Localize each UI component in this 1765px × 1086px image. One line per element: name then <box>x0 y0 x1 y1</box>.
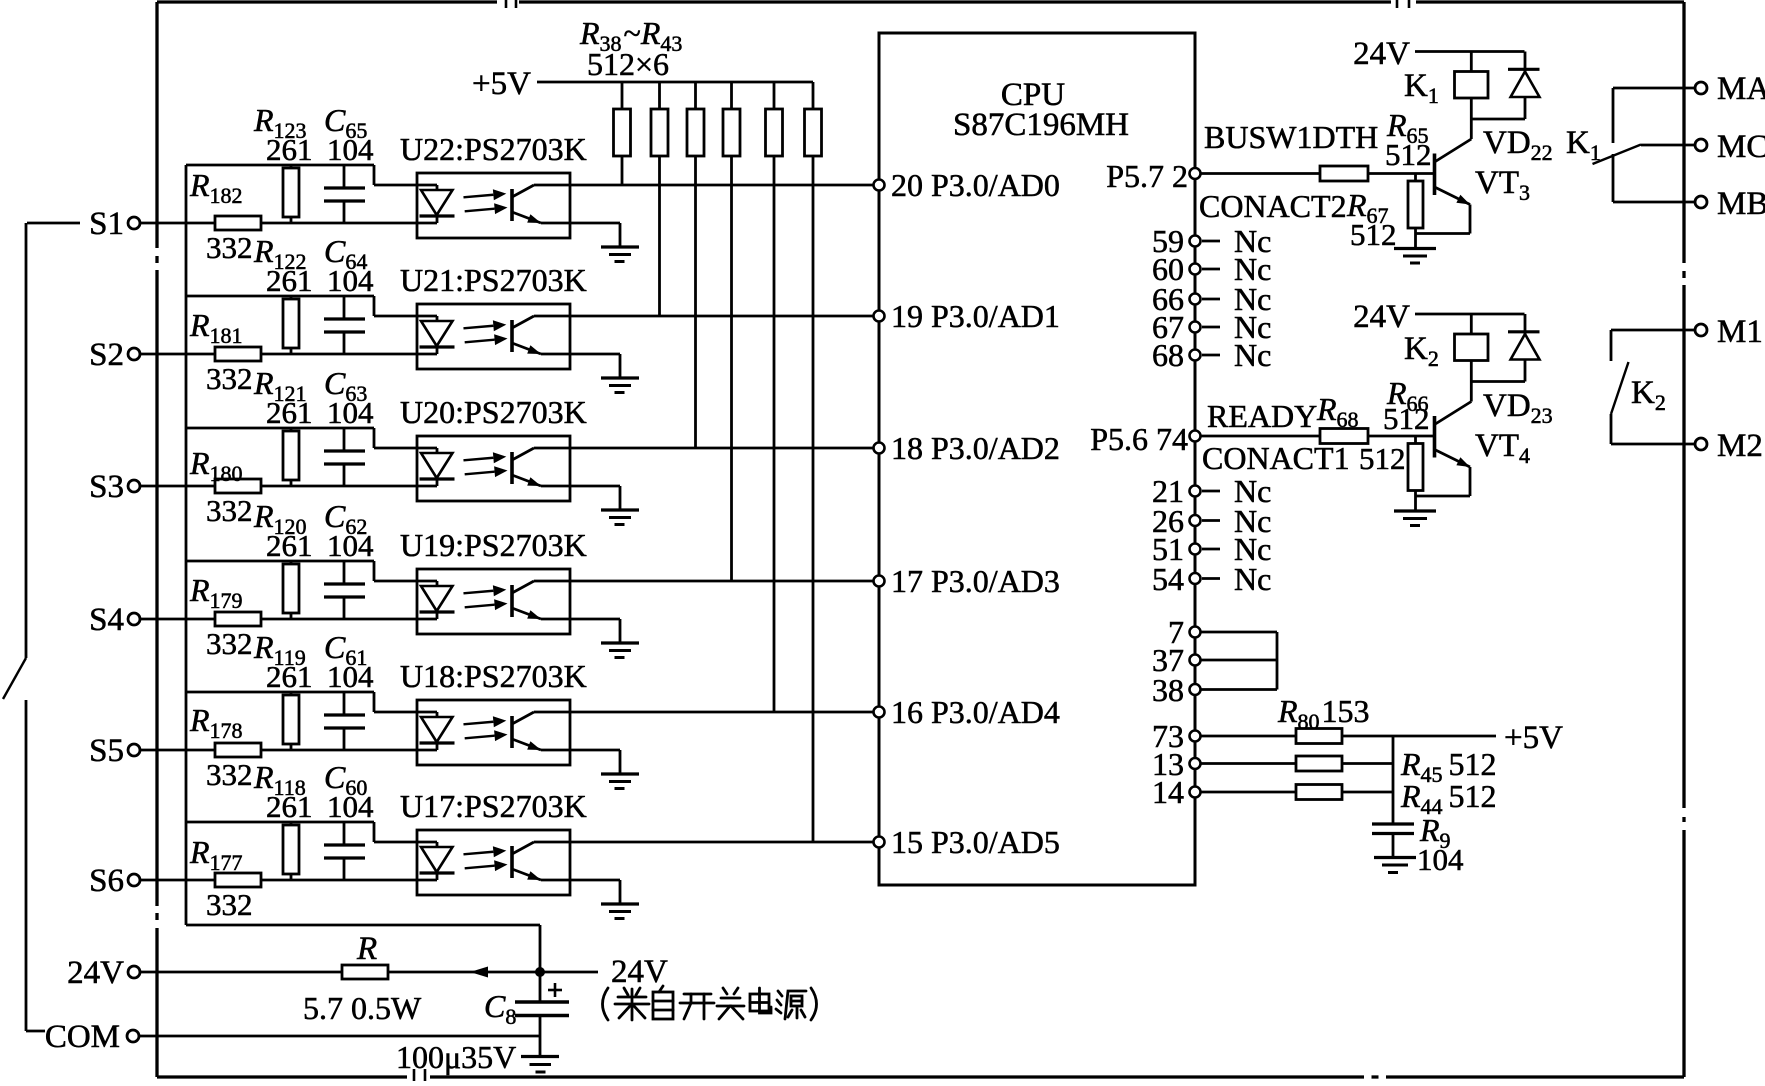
wire 24V rail <box>1415 313 1525 316</box>
svg-text:261: 261 <box>266 789 313 824</box>
diode VD22 <box>1524 52 1527 72</box>
terminal MA <box>1695 82 1707 94</box>
U19 phototransistor <box>510 585 514 617</box>
ground below VT4 <box>1394 509 1436 512</box>
svg-text:R80153: R80153 <box>1277 693 1370 734</box>
wire U18 emitter to ground <box>541 749 620 752</box>
svg-text:MC: MC <box>1717 129 1765 165</box>
svg-text:104: 104 <box>1417 842 1464 877</box>
svg-text:U19:PS2703K: U19:PS2703K <box>400 527 587 563</box>
wire 24V rail <box>1415 50 1525 53</box>
svg-text:5.7 0.5W: 5.7 0.5W <box>303 990 422 1026</box>
svg-text:U21:PS2703K: U21:PS2703K <box>400 262 587 298</box>
svg-text:104: 104 <box>327 395 374 430</box>
svg-text:261: 261 <box>266 659 313 694</box>
resistor R67 512 (pull-down) <box>1414 174 1417 182</box>
svg-text:104: 104 <box>327 659 374 694</box>
wire shorting pins 7 37 38 <box>1276 632 1279 690</box>
svg-text:14: 14 <box>1152 774 1184 810</box>
ground below U21 <box>601 376 639 379</box>
ground below U19 <box>601 641 639 644</box>
wire base line <box>1201 435 1321 438</box>
wire AD1 line to CPU pin 19 <box>534 315 874 318</box>
ground below U18 <box>601 772 639 775</box>
svg-text:104: 104 <box>327 789 374 824</box>
CPU pin 13 <box>1190 758 1201 769</box>
wire 24V line <box>141 971 343 974</box>
terminal M2 <box>1695 438 1707 450</box>
wire emitter to ground <box>1469 205 1472 234</box>
border frame bottom <box>157 1075 407 1078</box>
wire row rail <box>186 691 374 694</box>
U22 LED <box>436 185 439 190</box>
resistor R42 512 <box>773 82 776 109</box>
svg-text:BUSW1DTH: BUSW1DTH <box>1204 119 1378 155</box>
ground below U22 <box>601 245 639 248</box>
relay coil K1 <box>1470 52 1473 72</box>
svg-text:+5V: +5V <box>1504 720 1563 756</box>
svg-text:18 P3.0/AD2: 18 P3.0/AD2 <box>891 430 1060 466</box>
wire row rail <box>186 295 374 298</box>
svg-text:332: 332 <box>206 493 253 528</box>
wire row rail <box>186 427 374 430</box>
U21 LED <box>436 316 439 321</box>
svg-text:261: 261 <box>266 528 313 563</box>
svg-text:24V: 24V <box>611 954 668 990</box>
wire 24V bus bottom <box>186 924 540 927</box>
CPU pin 7 <box>1190 627 1201 638</box>
svg-text:S2: S2 <box>89 337 124 373</box>
resistor R180 332 <box>215 479 261 493</box>
resistor R38 512 <box>621 82 624 109</box>
svg-text:U17:PS2703K: U17:PS2703K <box>400 788 587 824</box>
svg-text:24V: 24V <box>1353 36 1410 72</box>
terminal M1 <box>1695 324 1707 336</box>
U20 phototransistor <box>510 452 514 484</box>
wire U20 emitter to ground <box>541 485 620 488</box>
svg-text:332: 332 <box>206 230 253 265</box>
resistor R45 512 <box>1296 756 1342 771</box>
resistor R121 261 pull-up <box>290 428 293 431</box>
wire S5 line left <box>141 749 216 752</box>
CPU pin 54 Nc <box>1190 573 1201 584</box>
svg-text:104: 104 <box>327 528 374 563</box>
wire junction vertical <box>1392 736 1395 824</box>
wire S3 line right <box>261 485 437 488</box>
resistor R119 261 pull-up <box>290 692 293 695</box>
U17 light arrows <box>463 845 508 874</box>
resistor R41 512 <box>730 82 733 109</box>
wire base line <box>1201 172 1321 175</box>
capacitor C62 104 <box>343 561 346 584</box>
svg-text:CONACT2: CONACT2 <box>1199 188 1347 224</box>
wire S5 line right <box>261 749 437 752</box>
wire U21 emitter to ground <box>541 353 620 356</box>
svg-text:38: 38 <box>1152 672 1184 708</box>
svg-text:512: 512 <box>1359 441 1406 476</box>
CPU pin 18 <box>874 443 885 454</box>
CPU pin 60 Nc <box>1190 264 1201 275</box>
CPU pin 14 <box>1190 787 1201 798</box>
svg-text:R44512: R44512 <box>1400 778 1497 819</box>
wire S2 line left <box>141 353 216 356</box>
wire S1 external stub <box>27 222 80 225</box>
U17 LED <box>436 842 439 847</box>
current direction arrow <box>470 967 488 978</box>
transistor VT4 <box>1435 402 1472 425</box>
capacitor C60 104 <box>343 822 346 845</box>
CPU S87C196MH <box>879 33 1195 885</box>
CPU pin 67 Nc <box>1190 322 1201 333</box>
relay coil K2 <box>1470 314 1473 334</box>
svg-text:Nc: Nc <box>1234 337 1271 373</box>
resistor R122 261 pull-up <box>290 296 293 299</box>
svg-text:332: 332 <box>206 626 253 661</box>
svg-text:COM: COM <box>45 1019 120 1055</box>
wire S4 line left <box>141 618 216 621</box>
wire external switch lower to COM <box>25 700 28 1031</box>
svg-text:261: 261 <box>266 132 313 167</box>
terminal MC <box>1695 139 1707 151</box>
svg-text:MA: MA <box>1717 71 1765 107</box>
CPU pin 38 <box>1190 684 1201 695</box>
wire row rail <box>186 821 374 824</box>
svg-text:Nc: Nc <box>1234 561 1271 597</box>
svg-text:U20:PS2703K: U20:PS2703K <box>400 394 587 430</box>
svg-text:332: 332 <box>206 887 253 922</box>
svg-text:332: 332 <box>206 361 253 396</box>
resistor R65 512 (base) <box>1320 166 1368 181</box>
resistor R39 512 <box>658 82 661 109</box>
svg-text:M2: M2 <box>1717 428 1763 464</box>
CPU pin 21 Nc <box>1190 486 1201 497</box>
relay contact K1 <box>1613 87 1696 90</box>
resistor R120 261 pull-up <box>290 561 293 564</box>
svg-text:512: 512 <box>1350 217 1397 252</box>
svg-text:CONACT1: CONACT1 <box>1202 440 1350 476</box>
capacitor C61 104 <box>343 692 346 715</box>
resistor R80 153 <box>1296 729 1342 744</box>
U22 light arrows <box>463 188 508 217</box>
border frame left <box>155 2 158 248</box>
svg-text:+5V: +5V <box>472 66 531 102</box>
resistor R118 261 pull-up <box>290 822 293 825</box>
ground below C8 <box>521 1055 559 1058</box>
capacitor C64 104 <box>343 296 346 319</box>
resistor R68 512 (base) <box>1320 429 1368 444</box>
wire AD0 line to CPU pin 20 <box>534 184 874 187</box>
svg-text:512: 512 <box>1383 401 1430 436</box>
svg-text:15 P3.0/AD5: 15 P3.0/AD5 <box>891 824 1060 860</box>
U19 LED <box>436 581 439 586</box>
ground below R9 <box>1374 856 1416 859</box>
border frame right <box>1682 2 1685 263</box>
wire AD5 line to CPU pin 15 <box>534 841 874 844</box>
svg-text:READY: READY <box>1207 398 1317 434</box>
svg-text:100μ35V: 100μ35V <box>396 1039 516 1075</box>
ground below U20 <box>601 508 639 511</box>
wire S6 line right <box>261 879 437 882</box>
wire S1 line left <box>141 222 216 225</box>
svg-text:S3: S3 <box>89 469 124 505</box>
resistor R178 332 <box>215 743 261 757</box>
resistor R179 332 <box>215 612 261 626</box>
resistor R40 512 <box>694 82 697 109</box>
svg-text:U18:PS2703K: U18:PS2703K <box>400 658 587 694</box>
CPU pin 15 <box>874 837 885 848</box>
capacitor C8 100u35V <box>539 972 542 1002</box>
relay contact K2 <box>1611 329 1696 332</box>
svg-text:54: 54 <box>1152 561 1184 597</box>
wire +5V rail <box>537 81 813 84</box>
CPU pin 26 Nc <box>1190 515 1201 526</box>
U18 phototransistor <box>510 716 514 748</box>
resistor R181 332 <box>215 347 261 361</box>
resistor R182 332 <box>215 216 261 230</box>
U18 light arrows <box>463 715 508 744</box>
wire emitter to ground <box>1469 467 1472 496</box>
svg-text:512: 512 <box>1385 137 1432 172</box>
wire AD3 line to CPU pin 17 <box>534 580 874 583</box>
svg-text:104: 104 <box>327 132 374 167</box>
wire S4 line right <box>261 618 437 621</box>
svg-text:16 P3.0/AD4: 16 P3.0/AD4 <box>891 694 1060 730</box>
CPU pin 68 Nc <box>1190 350 1201 361</box>
resistor R43 512 <box>812 82 815 109</box>
svg-text:MB: MB <box>1717 186 1765 222</box>
CPU pin 37 <box>1190 655 1201 666</box>
resistor R44 512 <box>1296 785 1342 800</box>
U20 LED <box>436 448 439 453</box>
wire AD2 line to CPU pin 18 <box>534 447 874 450</box>
wire U17 emitter to ground <box>541 879 620 882</box>
svg-text:P5.7 2: P5.7 2 <box>1106 158 1188 194</box>
svg-text:M1: M1 <box>1717 314 1763 350</box>
CPU pin 20 <box>874 180 885 191</box>
external switch blade <box>3 658 26 699</box>
wire S2 line right <box>261 353 437 356</box>
resistor R177 332 <box>215 873 261 887</box>
svg-text:20 P3.0/AD0: 20 P3.0/AD0 <box>891 167 1060 203</box>
capacitor R9 104 <box>1372 822 1414 825</box>
svg-text:S87C196MH: S87C196MH <box>953 107 1129 143</box>
U22 phototransistor <box>510 189 514 221</box>
wire external switch upper <box>25 223 28 658</box>
wire S6 line left <box>141 879 216 882</box>
wire COM line <box>140 1035 541 1038</box>
diode VD23 <box>1524 314 1527 334</box>
wire U19 emitter to ground <box>541 618 620 621</box>
svg-text:68: 68 <box>1152 337 1184 373</box>
svg-text:261: 261 <box>266 263 313 298</box>
CPU pin 73 <box>1190 731 1201 742</box>
capacitor C63 104 <box>343 428 346 451</box>
ground below U17 <box>601 902 639 905</box>
resistor R66 512 (pull-down) <box>1414 436 1417 444</box>
capacitor C65 104 <box>343 165 346 188</box>
CPU pin 17 <box>874 576 885 587</box>
svg-text:512×6: 512×6 <box>587 46 669 82</box>
U21 phototransistor <box>510 320 514 352</box>
resistor R 5.7 0.5W <box>342 965 388 979</box>
CPU pin 19 <box>874 311 885 322</box>
wire S1 line right <box>261 222 437 225</box>
svg-text:24V: 24V <box>1353 299 1410 335</box>
terminal MB <box>1695 196 1707 208</box>
wire U22 emitter to ground <box>541 222 620 225</box>
U21 light arrows <box>463 319 508 348</box>
ground below VT3 <box>1394 247 1436 250</box>
U18 LED <box>436 712 439 717</box>
svg-text:P5.6 74: P5.6 74 <box>1090 421 1188 457</box>
wire S3 line left <box>141 485 216 488</box>
CPU pin 51 Nc <box>1190 544 1201 555</box>
svg-text:24V: 24V <box>67 955 124 991</box>
note: from switching power supply (Chinese) <box>603 986 817 1020</box>
svg-text:104: 104 <box>327 263 374 298</box>
junction 24V node <box>535 967 545 977</box>
svg-text:S1: S1 <box>89 206 124 242</box>
wire row rail <box>186 164 374 167</box>
svg-text:332: 332 <box>206 757 253 792</box>
wire pin73 to +5V <box>1342 735 1496 738</box>
CPU pin 16 <box>874 707 885 718</box>
resistor R123 261 pull-up <box>290 165 293 168</box>
U19 light arrows <box>463 584 508 613</box>
wire coil/diode to collector <box>1470 361 1473 382</box>
transistor VT3 <box>1435 139 1472 162</box>
svg-text:19 P3.0/AD1: 19 P3.0/AD1 <box>891 298 1060 334</box>
svg-text:U22:PS2703K: U22:PS2703K <box>400 131 587 167</box>
CPU pin 66 Nc <box>1190 294 1201 305</box>
svg-text:S5: S5 <box>89 733 124 769</box>
border frame top <box>157 0 497 3</box>
U20 light arrows <box>463 451 508 480</box>
wire coil/diode to collector <box>1470 98 1473 119</box>
svg-text:S6: S6 <box>89 863 124 899</box>
svg-text:S4: S4 <box>89 602 124 638</box>
svg-text:261: 261 <box>266 395 313 430</box>
wire AD4 line to CPU pin 16 <box>534 711 874 714</box>
wire row rail <box>186 560 374 563</box>
svg-text:17 P3.0/AD3: 17 P3.0/AD3 <box>891 563 1060 599</box>
svg-text:R: R <box>356 931 377 967</box>
U17 phototransistor <box>510 846 514 878</box>
wire +24V vertical bus <box>185 165 188 925</box>
CPU pin 59 Nc <box>1190 236 1201 247</box>
